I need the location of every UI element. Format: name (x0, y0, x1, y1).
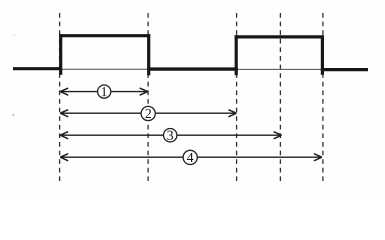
dimension arrow 1 left head (60, 88, 68, 95)
waveform baseline segment right (321, 68, 368, 71)
label digit 3 (167, 131, 173, 140)
label circle 1 (98, 85, 111, 98)
waveform falling edge 2 (321, 35, 324, 74)
dimension arrow 3 left head (60, 132, 68, 139)
dimension arrow 2 shaft left (61, 112, 141, 114)
waveform pulse 2 top (235, 35, 324, 38)
scan speck left (13, 114, 15, 115)
label digit 2 (145, 109, 151, 118)
dimension arrow 3 shaft right (178, 134, 282, 136)
dimension arrow 4 shaft right (198, 156, 322, 158)
label digit 1 (102, 87, 107, 96)
dimension arrow 2 right head (228, 110, 236, 117)
dimension arrow 3 shaft left (61, 134, 163, 136)
dimension arrow 4 shaft left (61, 156, 183, 158)
scan speck upper left (14, 35, 15, 36)
dimension arrow 2 left head (60, 110, 68, 117)
dimension arrow 1 shaft left (61, 91, 98, 93)
waveform falling edge 1 (147, 34, 150, 75)
waveform pulse 1 top (59, 34, 150, 37)
dashed guide line mid second pulse (279, 13, 281, 181)
waveform rising edge 2 (235, 35, 238, 75)
dashed guide line at second falling edge (322, 13, 324, 181)
dimension arrow 4 left head (60, 154, 68, 161)
dimension arrow 1 shaft right (111, 91, 147, 93)
dashed guide line at first rising edge (59, 13, 61, 181)
thin zero-level line under pulse 2 (236, 68, 322, 70)
thin zero-level line under pulse 1 (60, 68, 149, 70)
dashed guide line at first falling edge (147, 13, 149, 181)
label digit 4 (187, 153, 193, 162)
label circle 4 (183, 150, 197, 164)
waveform baseline segment left (13, 67, 62, 70)
label circle 3 (164, 129, 177, 142)
dimension arrow 3 right head (274, 132, 282, 139)
dimension arrow 2 shaft right (156, 112, 236, 114)
waveform baseline segment middle (147, 67, 238, 70)
label circle 2 (141, 106, 155, 120)
dashed guide line at second rising edge (236, 13, 238, 181)
dimension arrow 1 right head (140, 88, 148, 95)
waveform rising edge 1 (59, 34, 62, 75)
dimension arrow 4 right head (314, 154, 322, 161)
